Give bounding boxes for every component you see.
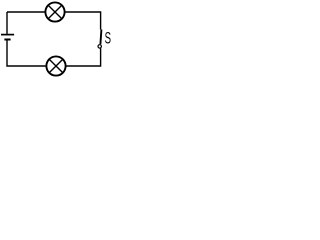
wire bottom-left (lamp L2 to battery) — [7, 40, 46, 66]
lamp L2 (bottom, circle with X) — [46, 56, 65, 75]
wire right-bottom (switch to lamp L2) — [66, 48, 101, 66]
wire top-right (lamp L1 to switch) — [65, 12, 101, 30]
wire left-top (battery to top wire) — [6, 12, 8, 34]
switch S lever — [100, 30, 101, 45]
wire top-left (battery to lamp L1) — [7, 11, 45, 13]
svg-text:S: S — [105, 29, 111, 47]
lamp L1 (top, circle with X) — [45, 2, 64, 21]
switch S bottom contact circle — [98, 45, 101, 48]
battery cell: short plate (negative) — [4, 39, 10, 41]
battery cell: long plate (positive) — [1, 34, 14, 36]
